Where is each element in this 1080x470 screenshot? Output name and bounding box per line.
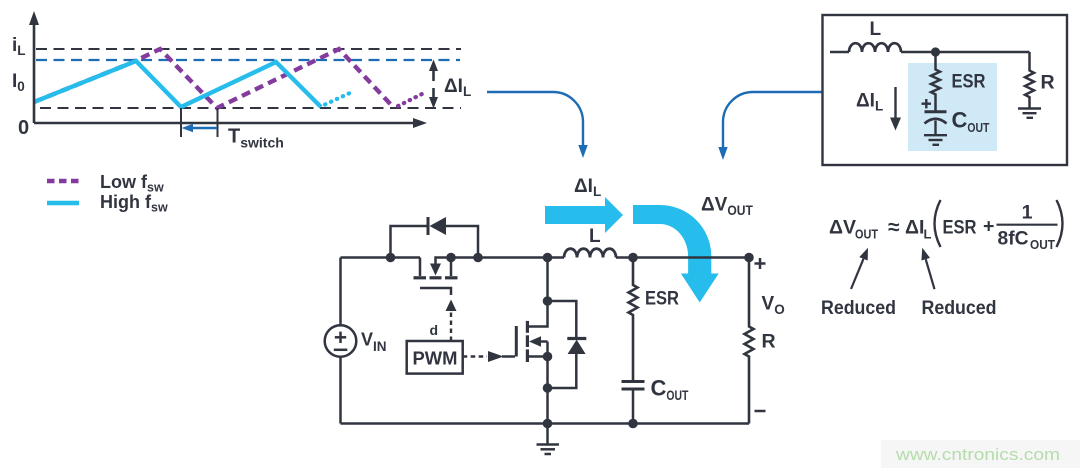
svg-text:COUT: COUT <box>651 376 689 404</box>
ground <box>537 424 560 455</box>
svg-text:ΔIL: ΔIL <box>574 176 601 199</box>
connector arrow from inset box to ripple voltage <box>723 92 822 148</box>
ripple voltage arrow (cyan curved block arrow) <box>633 205 719 303</box>
legend high fsw sample <box>47 201 79 206</box>
svg-text:Reduced: Reduced <box>922 297 997 319</box>
dashed line peak current level <box>36 48 461 50</box>
svg-text:L: L <box>589 226 601 247</box>
BIGARROWS <box>545 176 754 303</box>
FORMULA <box>821 200 1063 319</box>
formula right parenthesis <box>1057 200 1063 247</box>
WATERMARK <box>881 440 1080 468</box>
svg-text:High fsw: High fsw <box>100 192 168 215</box>
CONNECTORS <box>487 92 822 160</box>
GRAPH <box>12 11 471 151</box>
waveform low fsw (purple dashed) <box>34 49 394 108</box>
node output node <box>628 253 638 263</box>
waveform low fsw dotted tail <box>398 93 424 106</box>
svg-text:≈: ≈ <box>888 216 900 239</box>
ripple current arrow (cyan block arrow) <box>545 197 623 233</box>
wire inset top <box>830 51 849 53</box>
resistor ESR <box>629 258 638 382</box>
y-axis <box>33 24 36 123</box>
node switch node <box>543 253 553 263</box>
dashed line high-fsw peak level (blue) <box>36 59 460 61</box>
svg-text:1: 1 <box>1022 202 1033 224</box>
svg-text:I0: I0 <box>12 71 25 94</box>
transistor Q2 (low-side switch) <box>516 301 547 362</box>
svg-text:ΔI: ΔI <box>905 217 924 239</box>
ground (inset R) <box>1018 109 1041 118</box>
capacitor COUT <box>622 380 645 383</box>
svg-text:8fC: 8fC <box>998 228 1029 250</box>
LEGEND <box>47 172 168 215</box>
wire top rail middle segment <box>451 256 564 259</box>
wire inset rail <box>901 51 1030 53</box>
resistor R (inset) <box>1025 52 1034 108</box>
node Q2 source <box>543 352 553 362</box>
plus terminal <box>755 258 766 269</box>
svg-text:0: 0 <box>18 117 29 139</box>
svg-text:iL: iL <box>12 35 26 58</box>
wire top rail right segment <box>616 256 749 259</box>
source VIN <box>325 325 357 357</box>
svg-text:ΔVOUT: ΔVOUT <box>701 195 754 219</box>
node D2 anode branch <box>543 383 553 393</box>
svg-text:Reduced: Reduced <box>821 297 896 319</box>
wire left vertical upper <box>339 258 342 326</box>
svg-text:VIN: VIN <box>361 330 387 355</box>
Tswitch tick left <box>180 108 182 137</box>
waveform high fsw (cyan) <box>34 61 321 107</box>
INSETBOX <box>823 15 1068 165</box>
inset box frame <box>823 15 1068 165</box>
svg-text:OUT: OUT <box>855 227 878 242</box>
svg-text:ESR: ESR <box>952 71 986 93</box>
node inset <box>931 47 940 56</box>
diode D2 <box>567 337 586 340</box>
svg-text:ESR: ESR <box>943 217 977 239</box>
delta IL dimension arrow <box>429 60 438 109</box>
diode D2 branch wires <box>548 301 577 388</box>
resistor R (load) <box>745 258 754 424</box>
dashed line valley current level <box>40 107 461 109</box>
node switch top left <box>386 253 396 263</box>
svg-text:+: + <box>983 216 994 238</box>
arrow to delta VOUT <box>851 259 864 289</box>
gate drive dashed arrow (d to Q1) <box>450 310 452 341</box>
node output terminal <box>744 253 754 263</box>
formula left parenthesis <box>935 200 941 247</box>
svg-text:R: R <box>762 331 776 353</box>
svg-text:Tswitch: Tswitch <box>228 126 284 151</box>
waveform high fsw dotted tail <box>325 92 352 105</box>
plus polarity mark <box>922 99 932 108</box>
ground (inset COUT) <box>924 135 947 145</box>
svg-text:OUT: OUT <box>1030 237 1055 252</box>
svg-text:PWM: PWM <box>413 348 458 369</box>
formula fraction bar <box>997 224 1058 226</box>
minus terminal <box>755 410 766 413</box>
svg-text:R: R <box>1041 72 1055 94</box>
legend low fsw sample <box>47 179 79 184</box>
wire switch node vertical <box>546 258 549 302</box>
svg-text:d: d <box>430 322 439 338</box>
highlight region (ESR + COUT) <box>908 63 997 151</box>
resistor ESR (inset) <box>931 52 940 112</box>
wire top rail left segment <box>341 256 421 259</box>
svg-text:www.cntronics.com: www.cntronics.com <box>895 446 1060 464</box>
capacitor COUT (inset, polarized) <box>925 110 947 113</box>
svg-text:L: L <box>870 19 882 40</box>
x-axis <box>34 122 414 125</box>
wire left vertical lower <box>339 357 342 424</box>
node COUT bottom <box>628 419 638 429</box>
svg-text:ESR: ESR <box>645 288 679 310</box>
node diode right <box>473 253 483 263</box>
node ground <box>543 419 553 429</box>
wire bottom rail <box>341 422 750 425</box>
svg-text:VO: VO <box>762 294 785 318</box>
connector arrow from graph to ripple current <box>487 92 583 146</box>
svg-text:ΔIL: ΔIL <box>444 76 471 99</box>
PWM block <box>407 341 463 374</box>
Tswitch arrow (blue, pointing left) <box>191 127 217 129</box>
transistor Q1 (high-side switch) <box>414 258 458 296</box>
node Q2 drain branch <box>543 296 553 306</box>
arrow to delta IL <box>926 259 935 289</box>
Tswitch tick right <box>217 108 219 137</box>
delta IL arrow (inset) <box>894 87 896 119</box>
MAINCIRCUIT <box>325 217 785 454</box>
node Q1 drain <box>446 253 456 263</box>
pwm to gate dashed arrow <box>463 355 487 357</box>
wire Q2 source to bottom rail <box>546 357 549 424</box>
body diode D1 branch wires <box>391 226 479 258</box>
inductor L <box>564 249 616 258</box>
body diode D1 <box>427 217 430 235</box>
inductor L (inset) <box>849 43 901 52</box>
svg-text:ΔV: ΔV <box>829 217 856 239</box>
svg-text:L: L <box>924 227 932 242</box>
